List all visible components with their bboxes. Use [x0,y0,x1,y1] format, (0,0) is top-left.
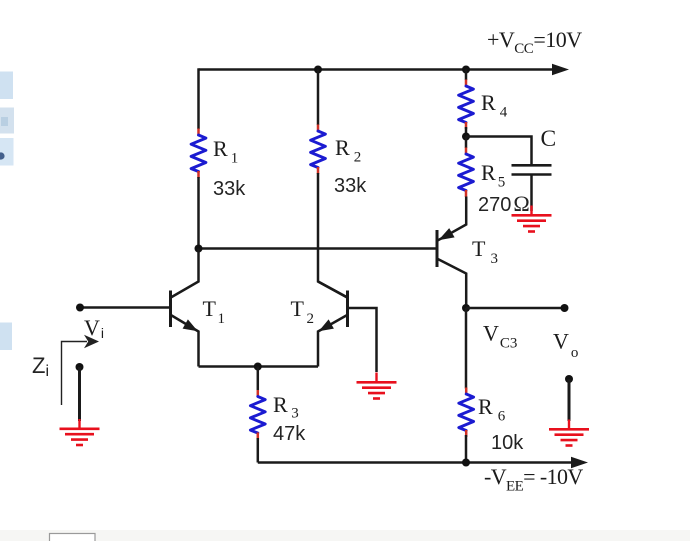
transistor T2 bar [346,291,349,328]
wire input to T1 base [80,306,171,309]
node T3 collector / VC3 [462,304,470,312]
wire lower terminal to ground [78,367,81,421]
bottom rail arrowhead [571,457,588,469]
svg-text:47k: 47k [273,423,306,445]
ground input [60,419,100,445]
svg-text:C: C [541,126,557,152]
svg-text:R4: R4 [481,90,508,121]
Zi arrowhead [84,335,99,348]
top rail arrowhead [552,64,569,76]
svg-text:R6: R6 [478,394,506,425]
svg-text:-VEE= -10V: -VEE= -10V [484,464,583,495]
sidebar square 2 [0,108,14,134]
node bus left [195,245,203,253]
wire collector bus [199,247,437,250]
wire R1 bottom [197,177,200,249]
svg-text:R3: R3 [273,392,299,422]
lower input terminal dot [76,363,84,371]
wire R3 top [257,367,260,391]
node R6 bottom [462,459,470,467]
capacitor C plate top [512,164,552,167]
node R3 top [254,363,262,371]
T2 emitter arrow [319,319,334,331]
svg-text:Zi: Zi [32,353,49,380]
svg-text:270Ω: 270Ω [478,191,530,216]
node R4/R5/C junction [462,133,470,141]
T3 collector [438,259,466,308]
sidebar square 1 [0,72,13,100]
wire T2 base to ground [348,308,377,372]
wire bottom rail [258,461,575,464]
wire R5 bottom to T3 emitter [437,197,466,241]
wire capacitor to ground [530,176,533,212]
capacitor C plate bottom [512,173,552,176]
svg-text:R1: R1 [213,136,238,167]
svg-text:T3: T3 [472,236,498,267]
wire R6 bottom [465,435,468,463]
input terminal dot [76,304,84,312]
wire R6 top [465,308,468,389]
resistor R4 [459,80,474,130]
svg-text:R2: R2 [335,135,361,166]
svg-text:33k: 33k [334,175,367,197]
svg-text:Vo: Vo [553,329,578,362]
wire R4 bottom [465,127,468,137]
Vo wire terminal dot [561,304,569,312]
resistor R2 [311,125,326,175]
bottom ui strip [0,530,690,541]
resistor R1 [191,129,206,179]
wire Vo terminal to ground [568,379,571,421]
svg-text:R5: R5 [481,160,505,191]
wire R4 top [465,70,468,81]
Vo lower terminal dot [565,375,573,383]
svg-text:10k: 10k [491,432,524,454]
wire R3 bottom [257,438,260,463]
resistor R5 [459,148,474,198]
resistor R3 [250,390,265,440]
svg-text:T2: T2 [291,296,314,327]
Zi arrow [62,342,88,406]
wire R1 top [197,68,200,129]
T1 collector [171,249,199,298]
svg-text:33k: 33k [213,178,246,200]
wire R5 top [465,137,468,149]
wire R2 bottom to T2 collector [318,173,348,298]
T1 emitter [171,315,199,367]
transistor T1 bar [169,291,172,328]
wire VC3 to Vo terminal [466,307,565,310]
ground Vo [549,420,589,446]
T2 emitter [318,315,347,367]
transistor T3 bar [436,230,439,267]
wire to capacitor C [466,137,532,165]
resistor R6 [459,388,474,438]
sidebar square 4 [0,323,12,351]
wire R2 top [317,70,320,126]
T2 collector [318,282,347,298]
node R2 top [314,66,322,74]
node R4 top [462,66,470,74]
sidebar square 3 [0,138,14,166]
wire emitter bus [199,365,319,368]
T3 emitter arrow [438,228,454,240]
T1 emitter arrow [183,319,198,331]
svg-text:+VCC=10V: +VCC=10V [487,27,582,57]
svg-text:T1: T1 [203,296,225,327]
ground T2 base [357,373,397,399]
wire top rail [199,68,557,71]
bottom ui textbox [50,534,96,541]
ground below C [512,206,552,232]
sidebar square 2 glyph [1,117,8,126]
svg-text:VC3: VC3 [483,321,517,352]
sidebar icon dot [0,152,5,159]
